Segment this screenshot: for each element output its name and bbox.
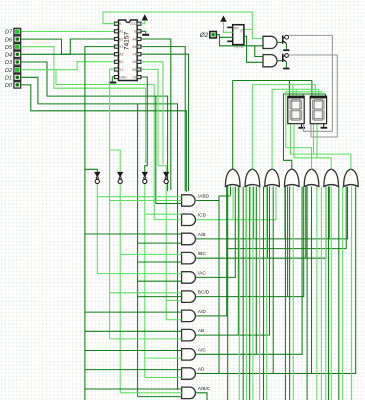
wire U1 B3 to inverter 4 — [141, 69, 166, 172]
wire AND output AD — [196, 187, 356, 374]
wire OR input tap — [287, 187, 289, 297]
inverter 3 (vertical, pointing down) — [142, 172, 147, 176]
wire bus B to inverter 2 — [110, 150, 121, 172]
U1 pin 5 A2 — [114, 53, 118, 56]
wire OR1 input from /ABD — [230, 187, 232, 196]
wire AND output A/B — [196, 187, 347, 239]
wire OR1 input deep vertical — [227, 187, 229, 400]
AND gate /BC — [182, 252, 196, 264]
input connector D7 — [14, 28, 21, 34]
wire gate input — [110, 292, 182, 294]
wire D5 down right loop — [21, 47, 146, 163]
svg-text:D6: D6 — [5, 37, 13, 43]
ground at Q1 — [283, 49, 289, 51]
OR gate seg2 (vertical, output up) — [245, 169, 260, 187]
transistor Q1 — [282, 35, 284, 43]
wire gate input — [145, 357, 182, 359]
wire OR4 output jog — [284, 94, 326, 169]
svg-text:Q: Q — [240, 29, 243, 33]
svg-text:A/C: A/C — [198, 347, 207, 353]
wire OR5 output jog — [286, 92, 322, 169]
wire gate input — [138, 261, 182, 263]
wire OR input tap — [249, 187, 251, 220]
wire OR output rail — [272, 89, 319, 169]
wire gate input — [120, 392, 181, 394]
svg-text:A/B/C: A/B/C — [198, 386, 211, 392]
input connector D3 — [14, 59, 21, 65]
wire D2 to U1 B2 — [21, 62, 115, 70]
svg-text:A/D: A/D — [198, 309, 207, 315]
svg-text:A2: A2 — [119, 53, 123, 57]
U1 pin 15 G — [137, 30, 141, 33]
input connector D1 — [14, 74, 21, 80]
wire bus notA — [96, 184, 98, 274]
wire Q1 emitter — [285, 44, 287, 50]
wire bus A from U1 Y1 — [85, 47, 115, 400]
wire OR input vertical — [266, 187, 268, 400]
wire OR input tap — [253, 187, 255, 239]
wire OR input vertical — [316, 187, 318, 400]
wire U1 Y3 to inverter 3 — [141, 77, 147, 172]
wire bus B from U1 Y2 — [110, 69, 115, 339]
AND gate A/C — [182, 349, 196, 361]
svg-text:A3: A3 — [132, 60, 136, 64]
FF preset stub — [227, 27, 232, 29]
wire display pin drop — [314, 85, 316, 97]
wire bus notD — [165, 184, 167, 320]
svg-text:Y4: Y4 — [132, 53, 136, 57]
wire OR input tap — [237, 187, 239, 336]
U1 pin 11 A3 — [137, 60, 141, 63]
svg-text:A1: A1 — [119, 30, 123, 34]
wire OR input vertical — [320, 187, 322, 400]
wire Q1 collector to display1 common — [288, 35, 332, 131]
AND gate U4 (digit2 enable) — [263, 55, 277, 67]
wire gate input — [85, 388, 182, 390]
input connector phi2 — [210, 32, 217, 38]
svg-text:D1: D1 — [5, 76, 12, 82]
svg-text:Y3: Y3 — [132, 76, 136, 80]
wire OR input vertical — [351, 187, 353, 400]
AND gate /AC — [182, 272, 196, 284]
wire AND output BC/D — [196, 187, 304, 297]
input connector D0 — [14, 82, 21, 88]
wire OR input vertical — [238, 187, 240, 400]
wire OR input tap — [284, 187, 286, 239]
wire gate input — [110, 338, 182, 340]
inverter 1 (vertical, pointing down) — [95, 172, 100, 176]
input connector D4 — [14, 51, 21, 57]
wire OR input vertical — [289, 187, 291, 400]
wire OR input tap — [245, 187, 247, 297]
wire D3 loop to column — [21, 62, 168, 191]
wire bus D dark — [155, 96, 157, 203]
OR gate seg7 (vertical, output up) — [344, 169, 359, 187]
U1 pin 12 Y4 — [137, 53, 141, 56]
wire OR input vertical — [328, 187, 330, 400]
ground at Q2 — [283, 68, 289, 70]
wire OR input vertical — [342, 187, 344, 400]
wire gate input — [85, 233, 182, 235]
wire display pin drop — [295, 89, 297, 96]
input connector D6 — [14, 36, 21, 42]
svg-text:D3: D3 — [5, 60, 13, 66]
wire display pin drop — [318, 89, 320, 96]
wire /ABD down branch — [218, 201, 220, 374]
U1 pin 4 Y1 — [114, 45, 118, 48]
wire gate input — [138, 242, 182, 244]
wire OR input vertical — [263, 187, 265, 400]
wire phi2 branch to AND2 — [255, 46, 263, 57]
svg-text:/BC: /BC — [198, 251, 207, 257]
AND gate A/D — [182, 310, 196, 322]
wire U1 VCC — [141, 21, 145, 24]
svg-text:VCC: VCC — [129, 22, 137, 26]
input connector D5 — [14, 44, 21, 50]
wire gate input — [85, 330, 182, 332]
wire D4 to U1 B1 — [21, 39, 115, 54]
wire gate input — [110, 200, 182, 202]
wire phi2 to AND1 — [220, 37, 264, 46]
svg-text:A4: A4 — [132, 37, 136, 41]
ground at U1 pin G — [142, 34, 149, 36]
wire gate input — [97, 273, 181, 275]
svg-text:Y2: Y2 — [119, 68, 123, 72]
wire OR input vertical — [284, 187, 286, 400]
wire AND output /BC — [196, 187, 326, 259]
svg-text:/ABD: /ABD — [198, 194, 210, 200]
svg-text:7474: 7474 — [234, 44, 244, 49]
svg-text:GND: GND — [119, 76, 127, 80]
wire OR input vertical — [245, 187, 247, 400]
wire gate input — [85, 369, 182, 371]
U1 pin 9 Y3 — [137, 76, 141, 79]
wire FF notQ to AND2 — [244, 36, 263, 62]
wire OR input vertical — [249, 187, 251, 400]
wire FF Q to AND1 — [252, 29, 263, 38]
wire gate input — [145, 213, 182, 215]
svg-text:D5: D5 — [5, 45, 13, 51]
power VCC symbol at FF — [220, 16, 226, 22]
wire OR input tap — [272, 187, 274, 374]
inverter 2 (vertical, pointing down) — [118, 172, 123, 176]
wire rail to OR7 — [228, 248, 347, 250]
wire display1 gnd stem — [301, 124, 303, 127]
wire gate input — [166, 319, 181, 321]
wire OR input tap — [328, 187, 330, 239]
wire gate input — [156, 203, 182, 205]
wire D0 loop to column — [21, 85, 187, 192]
svg-text:A/B: A/B — [198, 232, 206, 238]
wire OR input tap — [255, 187, 257, 355]
OR gate seg4 (vertical, output up) — [285, 169, 300, 187]
wire OR input tap — [232, 187, 234, 220]
wire gate input — [138, 296, 182, 298]
svg-text:Y1: Y1 — [119, 45, 123, 49]
svg-text:74157: 74157 — [124, 32, 131, 51]
U1 pin 1 S — [114, 22, 118, 25]
U1 pin 6 B2 — [114, 60, 118, 63]
AND gate BC/D — [182, 291, 196, 303]
wire loop rail light — [56, 71, 154, 85]
svg-text:B1: B1 — [119, 37, 123, 41]
svg-text:G: G — [134, 30, 137, 34]
wire display pin drop — [288, 81, 290, 97]
U1 pin 13 B4 — [137, 45, 141, 48]
wire AND output /AC — [196, 187, 235, 278]
wire OR input tap — [311, 187, 313, 374]
wire OR input vertical — [252, 187, 254, 400]
ground at U1 GND — [109, 82, 117, 84]
power VCC symbol at U1 — [142, 14, 148, 20]
wire AND output A/C — [196, 187, 302, 355]
wire U1 Y4 — [141, 54, 189, 191]
svg-text:D2: D2 — [5, 68, 12, 74]
wire bus C — [137, 104, 139, 397]
wire display pin drop — [302, 94, 304, 96]
wire Q2 emitter — [285, 62, 287, 68]
wire U1 A3 — [141, 62, 163, 164]
wire AND2 out to Q2 base — [277, 60, 282, 62]
svg-text:/CD: /CD — [198, 213, 207, 219]
AND gate A/B — [182, 233, 196, 245]
wire D6 to U1 A2 — [21, 39, 115, 54]
OR gate seg1 (vertical, output up) — [225, 169, 240, 187]
svg-text:/AC: /AC — [198, 270, 207, 276]
FF clear stub — [227, 41, 232, 43]
flip-flop U2 7474 body — [233, 25, 244, 45]
wire D7 to U1 A1 — [21, 31, 115, 33]
wire OR input tap — [305, 187, 307, 259]
svg-text:Ø2: Ø2 — [199, 32, 209, 39]
U1 pin 2 A1 — [114, 30, 118, 33]
wire display pin drop — [299, 92, 301, 96]
wire display pin drop — [325, 94, 327, 96]
wire OR input vertical — [292, 187, 294, 400]
7-segment display DISP2 — [310, 96, 326, 124]
wire OR input vertical — [338, 187, 340, 400]
input connector D2 — [14, 67, 21, 73]
U1 pin 10 B3 — [137, 68, 141, 71]
wire AND output A/B/C — [196, 393, 207, 400]
wire OR output rail — [252, 85, 315, 170]
svg-text:AD: AD — [198, 367, 205, 373]
wire AND1 out to Q1 base — [277, 41, 282, 43]
OR gate seg3 (vertical, output up) — [265, 169, 280, 187]
wire OR input vertical — [242, 187, 244, 400]
svg-text:AB: AB — [198, 328, 204, 334]
wire Q2 collector to display2 common — [288, 55, 337, 137]
wire AND output /ABD — [196, 196, 230, 201]
wire OR input vertical — [306, 187, 308, 400]
wire phi2 to FF clock — [216, 35, 232, 38]
wire gate input — [145, 377, 182, 379]
wire bus notB — [119, 184, 121, 393]
wire OR input vertical — [330, 187, 332, 400]
OR gate seg5 (vertical, output up) — [304, 169, 319, 187]
7-segment display DISP1 — [288, 96, 304, 124]
wire gate input — [97, 196, 181, 198]
wire OR input vertical — [325, 187, 327, 400]
wire gate input — [85, 311, 182, 313]
inverter 4 (vertical, pointing down) — [164, 172, 169, 176]
svg-text:PR: PR — [234, 27, 239, 31]
wire U1 G to ground — [141, 31, 146, 34]
wire OR7 output — [291, 154, 351, 169]
wire OR input tap — [267, 187, 269, 259]
wire AND output /CD — [196, 187, 276, 220]
wire FF Q to U1 S select rail — [103, 12, 252, 29]
OR gate seg6 (vertical, output up) — [324, 169, 339, 187]
U1 pin 14 A4 — [137, 37, 141, 40]
wire gate input — [138, 396, 182, 398]
wire OR6 output — [294, 158, 331, 169]
AND gate AB — [182, 329, 196, 341]
wire OR output rail — [233, 81, 312, 170]
wire bus notC — [144, 184, 146, 378]
wire gate input — [166, 299, 181, 301]
AND gate /ABD — [182, 195, 196, 206]
wire D1 loop to column — [21, 77, 178, 390]
U1 pin 16 VCC — [137, 22, 141, 25]
wire AND output A/D — [196, 187, 227, 316]
wire U1 B4 — [141, 47, 185, 191]
wire gate input — [85, 350, 182, 352]
wire display2 bottom pin — [313, 124, 315, 154]
svg-text:D7: D7 — [5, 30, 13, 36]
wire display2 bottom pin — [316, 124, 318, 158]
svg-text:D4: D4 — [5, 53, 12, 59]
transistor Q2 — [282, 54, 284, 62]
wire gate input — [154, 219, 181, 221]
wire bus A to inverter 1 — [85, 169, 97, 172]
svg-text:B4: B4 — [132, 45, 136, 49]
wire U1 A4 — [141, 39, 171, 190]
wire AND output AB — [196, 187, 269, 336]
AND gate A/B/C — [182, 387, 196, 399]
wire display pin drop — [321, 92, 323, 96]
svg-text:BC/D: BC/D — [198, 290, 210, 296]
wire bus D light — [153, 85, 155, 220]
wire display pin drop — [311, 81, 313, 97]
svg-text:B2: B2 — [119, 60, 123, 64]
AND gate /CD — [182, 214, 196, 226]
wire gate input — [120, 253, 181, 255]
U1 pin 8 GND — [114, 76, 118, 79]
svg-text:D0: D0 — [5, 83, 13, 89]
wire OR7 input from rail — [345, 187, 347, 249]
wire OR input vertical — [259, 187, 261, 400]
wire display1 bottom pin — [293, 124, 295, 158]
IC U1 74157 body — [119, 20, 138, 81]
AND gate AD — [182, 368, 196, 380]
wire gate input — [138, 280, 182, 282]
U1 pin 3 B1 — [114, 37, 118, 40]
wire U1 GND — [112, 77, 114, 82]
wire display1 bottom pin — [290, 124, 292, 154]
svg-text:B3: B3 — [132, 68, 136, 72]
AND gate U3 (digit1 enable) — [263, 36, 277, 48]
wire display pin drop — [292, 85, 294, 97]
wire FF D tie high — [224, 22, 233, 33]
U1 pin 7 Y2 — [114, 68, 118, 71]
wire display2 gnd stem — [323, 124, 325, 127]
